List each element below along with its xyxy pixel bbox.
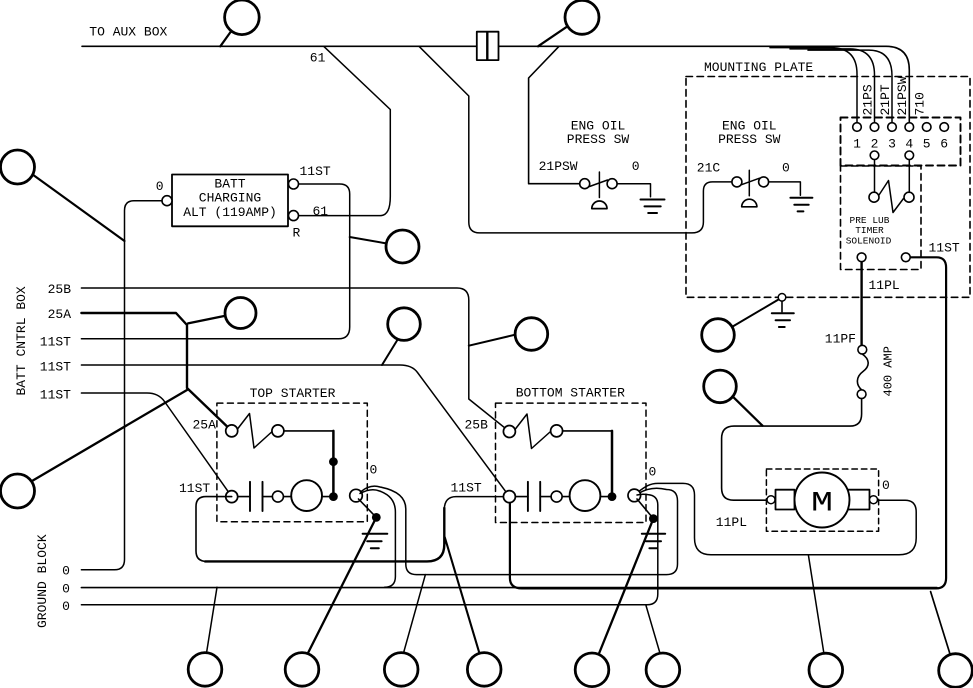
contact plates top starter — [250, 482, 263, 511]
svg-text:PRESS SW: PRESS SW — [567, 132, 630, 147]
ground SW1 — [641, 200, 665, 214]
wire contacts row top starter — [238, 496, 334, 498]
wire stub to balloon motor loop — [808, 555, 824, 654]
switch blade SW2 — [742, 178, 760, 185]
wire stub to balloon on 25B drop — [469, 335, 516, 346]
svg-text:0: 0 — [882, 478, 890, 493]
svg-text:M: M — [811, 489, 833, 520]
ground top starter — [363, 534, 388, 549]
wire stub to balloon 1 — [207, 587, 218, 653]
pin 2 — [870, 123, 879, 132]
wire alternator 0 terminal to ground block line 1 — [81, 201, 164, 570]
svg-text:6: 6 — [940, 137, 948, 152]
wire stub to balloon on 11ST row2 — [382, 337, 400, 366]
svg-text:BATT: BATT — [214, 177, 245, 192]
wire pin4 into pre lub — [908, 160, 910, 193]
svg-text:R: R — [293, 226, 301, 241]
svg-text:MOUNTING PLATE: MOUNTING PLATE — [704, 60, 813, 75]
junction dot ground top starter — [372, 513, 381, 522]
svg-text:ALT (119AMP): ALT (119AMP) — [183, 205, 277, 220]
timer contact zigzag — [879, 181, 904, 213]
pin 25A top starter — [226, 425, 238, 437]
svg-text:2: 2 — [871, 137, 879, 152]
svg-text:GROUND BLOCK: GROUND BLOCK — [35, 534, 50, 628]
pin 11ST top starter — [226, 491, 238, 503]
wire 21C from rail to oil switch 2 — [419, 46, 732, 233]
ground SW2 — [790, 198, 812, 212]
wire breaker to coil bus bottom starter — [563, 430, 612, 432]
pin pre lub bottom left — [857, 253, 866, 262]
junction dot ground bottom starter — [649, 514, 658, 523]
svg-text:21PSW: 21PSW — [895, 76, 910, 115]
pressure actuator dome SW2 — [742, 199, 757, 207]
svg-text:0: 0 — [62, 599, 70, 614]
wire stub to balloon top-middle — [538, 27, 566, 46]
balloon connector top-middle — [565, 0, 599, 34]
svg-text:11ST: 11ST — [40, 388, 71, 403]
wire 0 top starter to 0 bottom starter — [361, 486, 678, 574]
svg-text:61: 61 — [313, 204, 329, 219]
svg-text:11ST: 11ST — [40, 360, 71, 375]
ground bottom starter — [642, 534, 665, 549]
motor M1 dashed box — [766, 469, 878, 531]
pin 5 — [922, 123, 931, 132]
svg-text:5: 5 — [923, 137, 931, 152]
junction dot top starter out — [329, 492, 338, 501]
wire ground stub top starter — [359, 499, 377, 517]
pin 3 — [888, 123, 897, 132]
balloon connector left-upper — [1, 150, 35, 184]
wire 11ST row2 to bottom starter — [81, 365, 509, 497]
pin 11ST alternator — [289, 179, 299, 189]
wire 25A heavy cable to top starter — [81, 313, 231, 431]
wire SW2 to ground — [769, 182, 801, 195]
junction dot top starter mid — [329, 457, 338, 466]
wire 21PSW from rail to oil switch 1 — [529, 46, 580, 183]
wire terminal 2 drop — [790, 49, 875, 123]
svg-text:11ST: 11ST — [300, 164, 331, 179]
motor M1 body — [795, 473, 850, 528]
balloon connector on 25A — [225, 298, 256, 329]
svg-text:0: 0 — [62, 581, 70, 596]
balloon connector on motor feed — [704, 370, 737, 403]
svg-text:710: 710 — [913, 92, 928, 115]
wire 11ST from pre lub down right side and across bottom — [510, 257, 946, 588]
balloon connector right of alternator — [386, 230, 419, 263]
balloon connector bottom 2 — [285, 653, 319, 687]
balloon connector bottom 3 — [384, 653, 418, 687]
switch blade SW1 — [590, 180, 608, 187]
pin 0 top starter — [350, 489, 363, 502]
balloon connector left-lower — [1, 474, 35, 508]
pin breaker out top starter — [272, 425, 284, 437]
svg-text:11ST: 11ST — [179, 481, 210, 496]
svg-text:400 AMP: 400 AMP — [882, 346, 896, 396]
balloon connector bottom 6 — [646, 653, 680, 687]
svg-text:0: 0 — [782, 161, 790, 176]
svg-text:61: 61 — [310, 51, 326, 66]
svg-text:21PS: 21PS — [861, 84, 876, 115]
svg-text:11ST: 11ST — [929, 241, 960, 256]
junction dot bottom starter out — [608, 492, 617, 501]
pin 6 — [940, 123, 949, 132]
pin 11ST bottom starter — [503, 491, 515, 503]
pin timer right — [904, 192, 914, 202]
svg-text:21PT: 21PT — [878, 84, 893, 115]
wire alternator 11ST terminal to 11ST row 1 — [81, 184, 349, 339]
wire contacts row bottom starter — [515, 496, 612, 498]
svg-text:25B: 25B — [465, 417, 489, 432]
wire ground stub bottom starter — [637, 499, 653, 519]
pin contact out bottom starter — [551, 491, 562, 502]
ground mounting plate stud — [781, 301, 783, 312]
wire terminal 3 drop — [808, 50, 892, 123]
connector symbol on top rail — [477, 32, 487, 60]
svg-text:1: 1 — [853, 137, 861, 152]
svg-text:21C: 21C — [697, 161, 721, 176]
wire heavy vertical bus bottom starter — [611, 431, 614, 497]
wire ground line 3 to bottom starter 0 — [81, 494, 657, 605]
wire top rail to aux box — [82, 46, 909, 122]
svg-text:11ST: 11ST — [40, 335, 71, 350]
op-amp U1 alternator box BATT CHARGING ALT — [172, 175, 288, 227]
balloon connector bottom 1 — [188, 653, 222, 687]
svg-text:11ST: 11ST — [451, 480, 482, 495]
pin 0 alternator — [162, 196, 172, 206]
balloon connector top-left — [225, 0, 260, 35]
motor left brush box — [776, 490, 795, 510]
pin 25B bottom starter — [503, 426, 515, 438]
svg-text:0: 0 — [156, 179, 164, 194]
wire motor 0 loop to bottom starter — [638, 483, 917, 554]
svg-text:CHARGING: CHARGING — [199, 191, 261, 206]
balloon connector bottom 5 — [575, 653, 609, 687]
wire SW1 to ground — [617, 184, 650, 197]
pin timer left — [869, 192, 879, 202]
pin SW2 left — [732, 177, 742, 187]
pin contact out top starter — [272, 491, 283, 502]
svg-text:25A: 25A — [48, 307, 72, 322]
wire stub to balloon top-left — [220, 30, 232, 46]
terminal strip 1-6 — [841, 118, 961, 166]
top starter enclosure — [217, 403, 367, 522]
wire heavy ground to balloon bottom starter — [599, 519, 653, 654]
coil top starter — [291, 480, 322, 511]
wire stub to balloon on 25A — [188, 316, 226, 324]
svg-text:0: 0 — [632, 159, 640, 174]
wire stub heavy to balloon left-lower — [32, 390, 187, 481]
pin 61 alternator — [289, 211, 299, 221]
svg-text:BOTTOM STARTER: BOTTOM STARTER — [516, 385, 625, 400]
svg-text:11PL: 11PL — [869, 278, 900, 293]
pin motor right — [870, 496, 878, 504]
svg-text:0: 0 — [62, 563, 70, 578]
coil bottom starter — [570, 480, 601, 511]
mounting plate enclosure — [686, 77, 970, 298]
wire ground line 2 — [81, 587, 937, 589]
balloon connector on 11ST row2 — [388, 308, 421, 341]
svg-text:TOP STARTER: TOP STARTER — [250, 386, 336, 401]
svg-text:SOLENOID: SOLENOID — [846, 236, 892, 247]
svg-text:TO AUX BOX: TO AUX BOX — [89, 24, 167, 39]
balloon connector on 25B drop — [515, 318, 548, 351]
wire 25B to bottom starter — [81, 288, 509, 432]
svg-text:TIMER: TIMER — [855, 225, 884, 236]
wire terminal 1 drop — [770, 48, 857, 123]
svg-text:BATT CNTRL BOX: BATT CNTRL BOX — [14, 286, 29, 395]
svg-text:11PL: 11PL — [716, 515, 747, 530]
wire stub to balloon 6 — [646, 606, 661, 656]
svg-text:PRESS SW: PRESS SW — [718, 132, 781, 147]
svg-text:0: 0 — [370, 463, 378, 478]
fuse F1 400 AMP — [858, 345, 867, 354]
wire 11ST row3 to top starter — [81, 393, 231, 497]
wire stub to balloon left-upper — [31, 173, 125, 241]
pin SW2 right — [759, 177, 769, 187]
wire stub to balloon bottom right — [931, 592, 950, 654]
balloon connector bottom right — [939, 654, 973, 688]
wire 0 top starter to ground line 2 — [360, 490, 395, 588]
wire breaker to coil bus top starter — [284, 430, 334, 432]
pin breaker out bottom starter — [551, 425, 563, 437]
bottom starter enclosure — [496, 403, 647, 522]
wire stub to balloon near alternator — [350, 237, 387, 244]
wire heavy vertical bus top starter — [332, 431, 335, 497]
breaker zigzag bottom starter — [515, 414, 550, 449]
balloon connector mounting plate ground — [702, 319, 735, 352]
pressure actuator dome SW1 — [592, 201, 607, 209]
svg-text:25A: 25A — [193, 418, 217, 433]
wire 11PL heavy down from pre lub — [860, 262, 862, 346]
wire stub heavy to balloon from 11ST loop — [445, 537, 480, 654]
svg-text:21PSW: 21PSW — [539, 159, 578, 174]
pin SW1 left — [580, 179, 590, 189]
wire stub to balloon mounting plate ground — [731, 300, 779, 328]
svg-text:4: 4 — [905, 137, 913, 152]
contact plates bottom starter — [528, 482, 540, 511]
pin motor left — [767, 496, 775, 504]
pin 0 bottom starter — [628, 489, 641, 502]
wire heavy ground to balloon top starter — [308, 517, 376, 653]
wire stub heavy to balloon on motor feed — [733, 397, 762, 426]
relay K1 pre lub timer solenoid box — [841, 166, 922, 270]
pin 4 — [905, 123, 914, 132]
wire 11ST loop top starter to bottom starter — [196, 497, 232, 562]
pin pre lub bottom right — [901, 253, 910, 262]
pin pre lub strip 4 — [905, 151, 914, 160]
svg-text:11PF: 11PF — [825, 332, 856, 347]
svg-text:3: 3 — [888, 137, 896, 152]
svg-text:0: 0 — [649, 465, 657, 480]
svg-text:25B: 25B — [48, 282, 72, 297]
pin 1 — [853, 123, 862, 132]
breaker zigzag top starter — [238, 414, 273, 449]
pin SW1 right — [607, 179, 617, 189]
wire pin2 into pre lub — [874, 160, 876, 193]
balloon connector below motor — [809, 653, 843, 687]
wire fuse to motor feed — [722, 399, 862, 501]
balloon connector bottom 4 — [467, 653, 501, 687]
wire 61 from rail to alternator — [299, 46, 391, 215]
motor right brush box — [845, 490, 870, 510]
svg-text:PRE LUB: PRE LUB — [850, 215, 890, 226]
wire stub to balloon 3 — [404, 575, 426, 653]
pin pre lub strip 2 — [870, 151, 879, 160]
